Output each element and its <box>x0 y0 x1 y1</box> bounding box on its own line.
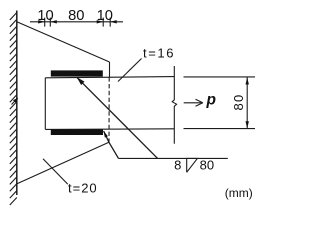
svg-text:80: 80 <box>68 8 84 24</box>
svg-text:10: 10 <box>37 8 53 24</box>
svg-text:(mm): (mm) <box>225 186 253 200</box>
svg-text:10: 10 <box>97 8 113 24</box>
svg-text:t=16: t=16 <box>143 46 175 61</box>
svg-text:p: p <box>206 91 216 108</box>
svg-text:8: 8 <box>174 157 181 172</box>
svg-text:80: 80 <box>200 157 214 172</box>
svg-text:80: 80 <box>231 94 246 111</box>
svg-text:t=20: t=20 <box>68 180 98 195</box>
